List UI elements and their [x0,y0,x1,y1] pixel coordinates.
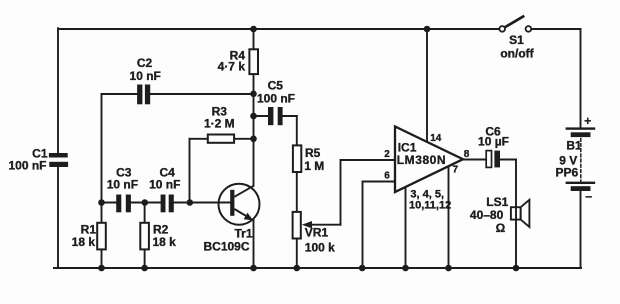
svg-text:7: 7 [453,165,459,176]
svg-text:LM380N: LM380N [397,153,446,167]
svg-text:10 nF: 10 nF [107,177,138,191]
svg-text:18 k: 18 k [72,235,96,249]
svg-text:C5: C5 [268,78,284,92]
svg-text:2: 2 [384,149,390,160]
svg-text:BC109C: BC109C [203,240,249,254]
svg-text:14: 14 [430,133,442,144]
svg-text:4·7 k: 4·7 k [218,60,246,74]
svg-text:PP6: PP6 [555,166,578,180]
svg-text:10 µF: 10 µF [478,135,509,149]
svg-text:Ω: Ω [496,221,506,235]
svg-text:10,11,12: 10,11,12 [409,199,451,211]
svg-text:8: 8 [464,149,470,160]
svg-text:Tr1: Tr1 [234,226,252,240]
svg-text:1·2 M: 1·2 M [204,116,235,130]
svg-text:18 k: 18 k [153,235,177,249]
svg-text:10 nF: 10 nF [149,177,180,191]
svg-text:on/off: on/off [500,47,534,61]
svg-text:10 nF: 10 nF [130,69,161,83]
svg-text:S1: S1 [509,33,524,47]
svg-text:+: + [584,114,591,128]
svg-text:6: 6 [384,171,390,182]
svg-text:100 nF: 100 nF [257,91,295,105]
svg-text:–: – [585,189,592,203]
svg-text:B1: B1 [566,138,582,152]
svg-text:C2: C2 [137,56,153,70]
svg-text:1 M: 1 M [304,159,324,173]
svg-text:100 k: 100 k [305,240,335,254]
svg-text:100 nF: 100 nF [8,159,46,173]
svg-text:40–80: 40–80 [470,208,504,222]
svg-text:VR1: VR1 [305,226,329,240]
